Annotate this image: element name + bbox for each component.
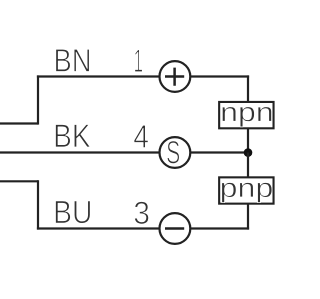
label pnp — [222, 183, 272, 203]
junction dot — [244, 148, 253, 157]
wire npn box to junction — [247, 129, 249, 153]
minus output circle — [160, 213, 191, 244]
label BU — [55, 201, 90, 224]
S switching element circle — [160, 137, 191, 168]
plus sign — [165, 68, 184, 86]
pin number 1 — [135, 50, 143, 72]
minus sign — [165, 227, 184, 230]
pnp box — [219, 177, 273, 203]
wire pnp box down — [247, 204, 249, 229]
wire BN vertical riser — [37, 75, 39, 124]
label S — [167, 141, 179, 164]
label BK — [55, 124, 90, 147]
wire BU left stub — [0, 180, 38, 182]
pin number 4 — [134, 125, 148, 147]
wire S circle to junction — [190, 151, 248, 153]
plus output circle — [160, 61, 191, 92]
wire BU horizontal — [37, 227, 160, 229]
wire BK horizontal — [0, 151, 160, 153]
npn box — [219, 102, 273, 128]
label npn — [222, 107, 271, 127]
wire plus circle to right riser — [190, 75, 249, 77]
wire BU vertical riser — [37, 180, 39, 229]
label BN — [56, 49, 90, 71]
pin number 3 — [134, 201, 148, 224]
wire riser down to npn box — [247, 75, 249, 101]
wire minus circle to pnp riser — [190, 227, 249, 229]
wire BN left stub — [0, 122, 38, 124]
wire junction to pnp box — [247, 153, 249, 177]
wire BN horizontal — [37, 75, 160, 77]
